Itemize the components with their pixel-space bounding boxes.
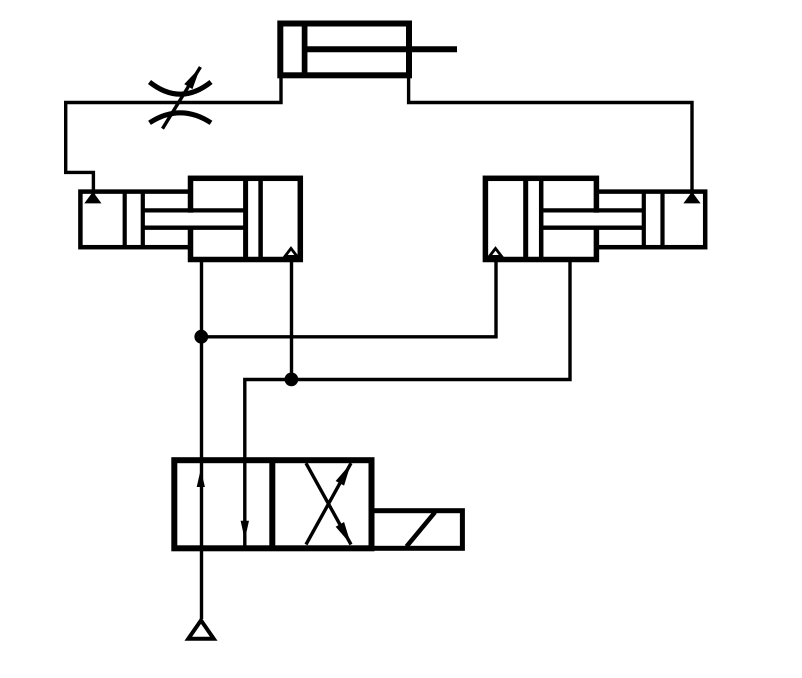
cylinder C1 body xyxy=(280,24,409,76)
wire from cylinder C3 port B down and left through node N2 to valve V1 port xyxy=(245,260,570,463)
cylinder C3 small body (right intensifier, pilot chamber) xyxy=(596,192,705,248)
cylinder C2 small piston (double line) xyxy=(125,192,143,248)
cylinder C3 small piston (double line) xyxy=(644,192,663,248)
wire from node N1 right then up to cylinder C3 port A xyxy=(202,260,497,337)
compressed air source triangle xyxy=(188,620,213,638)
cylinder C2 pilot supply triangle (filled) xyxy=(84,192,101,204)
valve V1 right position crossed arrow (top-left to bottom-right) xyxy=(306,463,351,544)
cylinder C2 vent triangle (hollow) xyxy=(285,248,297,256)
cylinder C3 vent triangle (hollow) xyxy=(489,248,501,256)
valve V1 right position crossed arrow (bottom-left to top-right) xyxy=(306,463,351,544)
throttle valve V4 adjustment arrow xyxy=(163,67,201,129)
throttle valve V4 upper arc xyxy=(150,82,212,94)
cylinder C2 hollow piston rod xyxy=(143,210,246,227)
cylinder C3 hollow piston rod xyxy=(541,210,644,227)
cylinder C2 large piston (double line) xyxy=(246,178,261,259)
valve V1 pilot actuator box xyxy=(372,511,463,549)
wire from cylinder C1 left port down-left through throttle to cylinder C2 pilot xyxy=(66,72,281,196)
cylinder C3 large body xyxy=(485,178,596,259)
junction node N2 xyxy=(285,373,299,387)
cylinder C2 small body (left intensifier, pilot chamber) xyxy=(80,192,190,248)
wire supply line from cylinder C2 port A down through valve V1 to source xyxy=(200,260,203,620)
throttle valve V4 lower arc xyxy=(150,113,212,123)
wire from cylinder C2 port B down to node N2 xyxy=(290,260,293,380)
cylinder C3 large piston (double line) xyxy=(526,178,542,259)
valve V1 body (4/2-way) outer box xyxy=(174,460,371,548)
wire from cylinder C1 right port down-right to cylinder C3 pilot xyxy=(409,72,692,196)
cylinder C1 piston xyxy=(302,24,308,76)
valve V1 position divider xyxy=(269,460,275,548)
cylinder C3 rod pass-through gap xyxy=(543,213,641,226)
valve V1 pilot actuator diagonal xyxy=(407,512,436,546)
valve V1 left position up-arrow head xyxy=(197,469,205,487)
junction node N1 xyxy=(194,330,208,344)
cylinder C2 large body xyxy=(191,178,301,259)
cylinder C3 pilot supply triangle (filled) xyxy=(683,192,700,204)
cylinder C2 rod pass-through gap xyxy=(145,213,243,226)
valve V1 left position down-arrow xyxy=(241,462,249,547)
cylinder C1 piston rod xyxy=(305,46,457,52)
